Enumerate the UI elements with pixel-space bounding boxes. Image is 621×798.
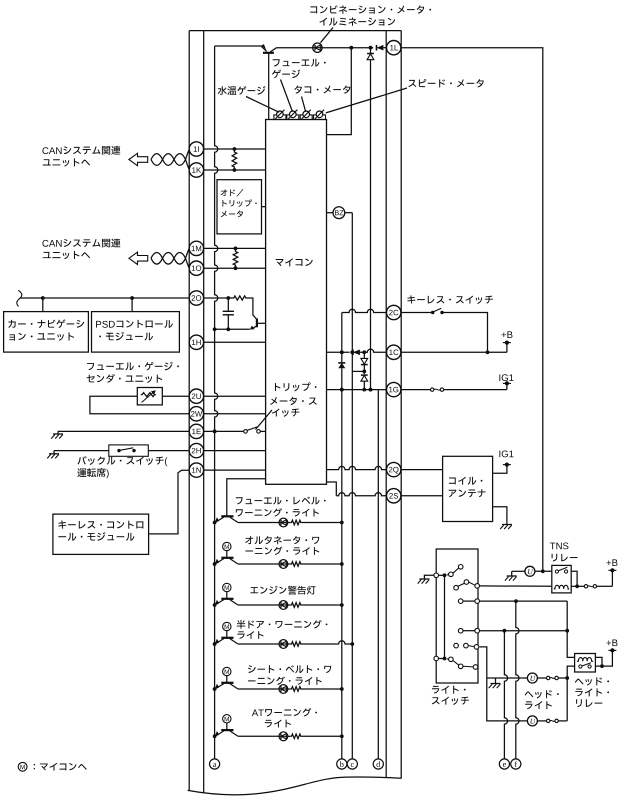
- wire ground to TNS relay with connector U1: [512, 570, 525, 572]
- headlight 1 wire: [487, 677, 527, 679]
- connector 1E: [189, 424, 203, 438]
- connector e: [499, 759, 509, 769]
- illumination wire lamp to 1L with junctions: [321, 47, 373, 49]
- diode D2-top downward from illumination node: [370, 48, 372, 54]
- ground rail a (vertical, transistor top to connector a): [215, 46, 218, 759]
- drop to car navigation unit: [42, 298, 44, 312]
- connector 1C wire from box: [327, 351, 350, 353]
- warning row 2 label: [245, 536, 319, 544]
- label: CAN system units (upper): [42, 146, 120, 155]
- connector d: [373, 759, 383, 769]
- outline arrow left (upper): [129, 153, 148, 165]
- warning row 6 label: [252, 708, 317, 716]
- warning row 4 label: [237, 620, 328, 629]
- leader tacho: [302, 97, 306, 112]
- keyless switch SW2: [401, 312, 431, 314]
- terminal +B (TNS): [611, 570, 613, 586]
- microcomputer signal M5: [223, 667, 231, 675]
- warning row 2 wire to rail b: [302, 563, 342, 565]
- buckle switch box: [109, 445, 149, 456]
- headlight lamp U2: [527, 673, 537, 683]
- connector 1G: [387, 382, 401, 396]
- headlight relay switch side to headlights: [567, 666, 574, 721]
- wire 2O into RC network: [204, 297, 233, 299]
- light switch contacts: [434, 573, 439, 578]
- warning lamp LP2: [238, 563, 279, 565]
- car navigation unit box: [4, 312, 89, 353]
- connector 1H: [189, 335, 203, 349]
- leader line to illumination lamp: [321, 28, 334, 43]
- connector 1N: [189, 463, 203, 477]
- headlight relay box RY2: [575, 654, 596, 673]
- warning lamp LP6: [238, 735, 279, 737]
- label: maikon: [276, 258, 313, 266]
- capacitor C1: [227, 298, 229, 311]
- inline connector pair (headlight 2): [547, 719, 550, 722]
- connector b: [337, 759, 347, 769]
- connector 2U: [189, 389, 203, 403]
- connector 1K: [189, 163, 203, 177]
- wire 1G to IG1 with inline connector: [401, 389, 430, 391]
- microcomputer signal M2: [223, 542, 231, 550]
- illumination lamp (LED): [313, 47, 322, 49]
- coil antenna box: [443, 456, 493, 521]
- headlight relay output to +B: [595, 657, 602, 666]
- wire 2W into box: [204, 413, 266, 415]
- connector 1G wire from box: [327, 389, 387, 391]
- wire light switch row3: [480, 630, 568, 632]
- warning row 3 wire to rail b: [302, 604, 342, 606]
- rail f to connector f: [516, 601, 519, 759]
- connector 2H: [189, 443, 203, 457]
- label: CAN system units (lower): [42, 239, 120, 248]
- warning row 6 transistor Q7: [221, 729, 233, 731]
- microcomputer signal M4: [223, 622, 231, 630]
- ground G1 (1E): [57, 431, 59, 434]
- ground G3 (coil antenna): [493, 507, 507, 525]
- wire 1N to keyless control module: [149, 470, 189, 534]
- wire Q1 emitter row: [215, 328, 250, 330]
- wire odo box to maikon box: [262, 206, 266, 208]
- warning row 1 label: [236, 497, 326, 505]
- headlight 2 lamp U3: [527, 716, 537, 726]
- warning lamp LP3: [238, 604, 279, 606]
- wire 2Q from box: [327, 466, 387, 469]
- wire 1M into box: [204, 247, 266, 249]
- microcomputer signal M6: [223, 715, 231, 723]
- warning row 3 label: [250, 586, 315, 595]
- connector 2Q: [387, 462, 401, 476]
- microcomputer unit box (maikon): [266, 120, 327, 485]
- wire 1E to trip switch: [204, 430, 244, 432]
- wire 2S from box bottom corner: [327, 482, 337, 496]
- terminal IG1 (1G): [506, 383, 508, 389]
- label: water temp gauge: [218, 86, 266, 95]
- connector 1I: [189, 142, 203, 156]
- label: light switch: [432, 686, 466, 694]
- wire R3 to transistor Q1 collector: [247, 298, 257, 320]
- wire maikon box to warning row 1 collector: [227, 479, 266, 516]
- resistor R1 (CAN termination upper): [232, 149, 237, 170]
- label: fuel gauge: [273, 59, 326, 67]
- leader fuel gauge: [281, 80, 293, 112]
- resistor R5: [288, 563, 291, 565]
- resistor R2 (CAN termination lower): [233, 248, 238, 268]
- vertical net wire from D2-top down to 1G row: [370, 60, 372, 390]
- wire maikon top-right to illumination node: [327, 48, 352, 135]
- trip meter switch SW1: [244, 430, 248, 434]
- terminal +B (1C): [506, 343, 508, 353]
- warning row 5 transistor Q6: [221, 682, 233, 684]
- TNS relay output wires: [571, 571, 577, 586]
- diode stack D4/D5 between 1C and 1G: [363, 352, 365, 358]
- inline connector pair (TNS +B): [584, 585, 587, 588]
- transistor Q1: [256, 319, 258, 328]
- Q-top base lead to maikon box: [268, 53, 270, 120]
- wire sender loop to 2W: [90, 396, 189, 414]
- connector 2O: [189, 291, 203, 305]
- ground G6 (headlight): [495, 678, 497, 684]
- label: TNS relay: [550, 542, 569, 549]
- ground G2 (buckle): [53, 451, 55, 454]
- connector 2C: [342, 309, 386, 312]
- ground G5 (light switch): [424, 575, 434, 579]
- wire ground to 1E: [58, 430, 189, 432]
- fuel sender unit symbol: [137, 388, 162, 405]
- wire buckle to 2H: [148, 450, 189, 452]
- diode D-top (series to 1L): [377, 45, 384, 51]
- resistor R7: [288, 643, 291, 645]
- resistor R9: [288, 735, 291, 737]
- combination meter outer frame left rails: [188, 31, 190, 791]
- label: speedometer: [408, 79, 483, 87]
- wire 1O into box: [204, 267, 266, 269]
- illumination wire to lamp: [277, 47, 313, 49]
- warning lamp LP4: [238, 643, 279, 645]
- warning row 5 label: [248, 665, 331, 673]
- label: headlight relay: [575, 677, 609, 685]
- warning row 1 transistor Q2: [221, 515, 233, 517]
- combination meter connector strip right rails: [385, 31, 387, 778]
- connector 1M: [189, 241, 203, 255]
- warning row 3 transistor Q4: [221, 598, 233, 600]
- resistor R3: [233, 296, 248, 300]
- warning row 2 transistor Q3: [221, 557, 233, 559]
- warning row 4 transistor Q5: [221, 637, 233, 639]
- torn-page wavy bottom edge: [188, 777, 402, 795]
- light switch box: [436, 549, 478, 683]
- wire sender to 2U: [162, 395, 189, 397]
- wire light switch row2 to headlight relay vertical: [480, 600, 568, 602]
- warning lamp LP5: [238, 688, 279, 690]
- warning row 6 wire to rail b: [302, 735, 342, 737]
- label: tacho meter: [294, 85, 350, 93]
- vertical to headlight relay coil: [567, 601, 574, 657]
- inline connector pair (headlight 1): [547, 676, 550, 679]
- combination meter top edge: [189, 30, 401, 32]
- resistor R6: [288, 604, 291, 606]
- wire 2U into box: [204, 395, 266, 397]
- warning row 5 wire to rail b: [302, 688, 342, 690]
- connector 2W: [189, 407, 203, 421]
- TNS relay box RY1: [552, 565, 571, 593]
- warning lamp LP1: [238, 522, 279, 524]
- warning row 4 wire to rail c (hops rail b): [302, 641, 352, 644]
- label: headlight: [525, 690, 559, 698]
- diode D6 on 1C wire (points left): [353, 350, 360, 356]
- twisted pair CAN lower: [151, 248, 189, 264]
- leader speedometer: [326, 88, 407, 113]
- ground G4 (TNS): [511, 571, 513, 576]
- diode D3 (up) on rail b: [338, 363, 345, 368]
- connector a: [210, 759, 220, 769]
- wire 1C to +B: [401, 351, 507, 353]
- wire keyless switch to 1C node: [442, 313, 488, 353]
- rail b: 2C elbow down to connector b with diode D3: [341, 313, 343, 760]
- illumination dimmer transistor Q-top: [215, 45, 261, 47]
- leader trip meter switch: [256, 410, 273, 430]
- microcomputer signal M3: [223, 583, 231, 591]
- resistor R4: [288, 522, 291, 524]
- leader water temp: [246, 97, 279, 113]
- label: buckle switch (driver seat): [78, 456, 168, 466]
- wire light switch to TNS relay coil: [480, 585, 552, 587]
- connector 1C: [387, 345, 401, 359]
- label: trip meter switch (inside box): [275, 382, 317, 391]
- wire 1K into box: [204, 169, 266, 171]
- connector f: [511, 759, 521, 769]
- wire 2S to coil antenna: [401, 495, 442, 497]
- outline arrow left (lower): [129, 252, 148, 264]
- connector 1O: [189, 261, 203, 275]
- wire 1I into box: [204, 148, 266, 150]
- resistor R8: [288, 688, 291, 690]
- twisted pair CAN upper: [151, 150, 189, 166]
- label: fuel gauge sender unit: [87, 362, 179, 371]
- rail e to connector e: [504, 631, 507, 760]
- wire 2Q to coil antenna: [401, 469, 442, 471]
- legend: M means to microcomputer: [18, 762, 27, 771]
- keyless control module box: [53, 514, 149, 554]
- connector c: [347, 759, 357, 769]
- drop to PSD control module: [131, 298, 133, 312]
- wire 1H into box: [204, 341, 266, 343]
- connector 2S: [387, 489, 401, 503]
- odo/trip meter box: [217, 180, 262, 234]
- gauge terminals: water temp, fuel, tacho, speedo: [274, 115, 286, 120]
- connector 1L: [387, 41, 401, 55]
- label: combination meter illumination: [310, 5, 431, 13]
- rail d lower: 1G row down to connector d: [377, 390, 379, 760]
- wire 2H into box: [204, 450, 266, 452]
- wire 2O to external units with break mark: [20, 297, 189, 299]
- label: keyless switch: [407, 295, 493, 304]
- wire light switch row4 down to headlight 2: [480, 647, 528, 721]
- warning row 1 wire to rail b: [302, 522, 342, 524]
- rail c: BZ line down to connector c: [351, 213, 353, 760]
- wire 1N into box: [204, 469, 266, 471]
- wire ground to buckle switch: [54, 450, 109, 452]
- buzzer BZ: [327, 212, 334, 214]
- terminal IG1 (coil antenna): [493, 465, 507, 474]
- wire 1L to right rail down to TNS relay: [401, 48, 543, 572]
- PSD control module box: [92, 312, 180, 353]
